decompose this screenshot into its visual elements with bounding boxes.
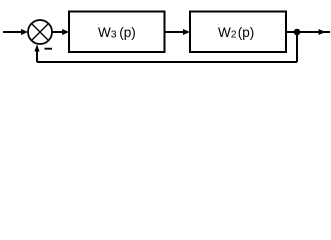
block W2 bbox=[190, 12, 286, 53]
wire: summer to block W3 bbox=[52, 31, 64, 33]
summing junction (circle with X) bbox=[28, 20, 52, 44]
output arrowhead bbox=[319, 29, 326, 35]
wire: feedback up into summer bbox=[36, 50, 38, 62]
arrowhead into block W2 bbox=[183, 29, 190, 35]
wire: output line bbox=[286, 31, 330, 33]
block W3 bbox=[69, 12, 165, 53]
svg-text:W3 (p): W3 (p) bbox=[98, 25, 136, 41]
wire: feedback bottom run bbox=[37, 61, 297, 63]
node: takeoff point dot bbox=[294, 29, 301, 36]
wire: block W3 to block W2 bbox=[165, 31, 186, 33]
minus sign at feedback input bbox=[45, 48, 53, 50]
arrowhead into summer bbox=[21, 29, 28, 35]
svg-text:W2 (p): W2 (p) bbox=[218, 25, 254, 41]
wire: feedback down from node bbox=[296, 32, 298, 62]
arrowhead into summer bottom bbox=[34, 44, 39, 51]
wire: input line into summer bbox=[3, 31, 23, 33]
arrowhead into block W3 bbox=[62, 29, 69, 35]
